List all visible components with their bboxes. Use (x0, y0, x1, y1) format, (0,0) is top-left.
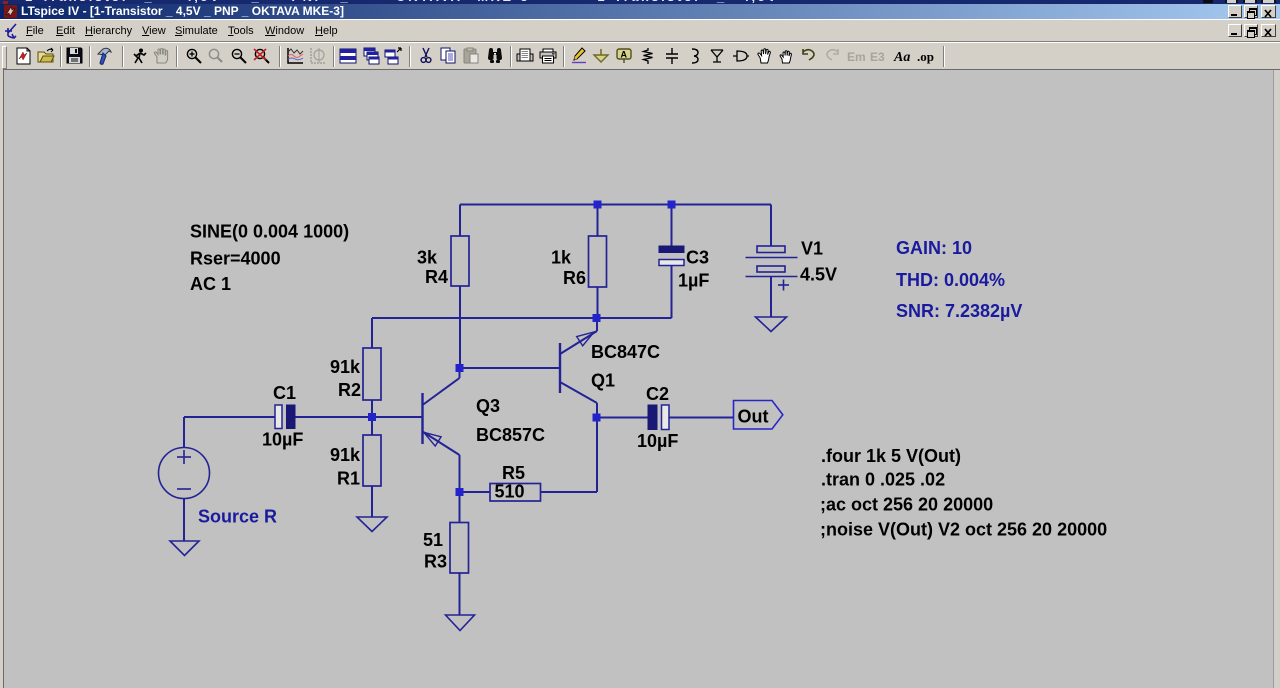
svg-text:BC857C: BC857C (476, 425, 545, 445)
MDI child icon (5, 23, 19, 39)
ground R1 (357, 517, 387, 532)
svg-text:SNR: 7.2382µV: SNR: 7.2382µV (896, 301, 1022, 321)
wire R3 bottom lead (459, 573, 461, 615)
wire R4 bottom lead to node base-Q1 (459, 286, 461, 368)
icon zoom box grayed (209, 49, 222, 62)
svg-text:91k: 91k (330, 357, 361, 377)
icon plot settings grayed (311, 48, 326, 63)
LTspice app icon (4, 5, 17, 18)
icon waveform (288, 48, 303, 63)
svg-text:R2: R2 (338, 380, 361, 400)
svg-text:.four 1k 5 V(Out): .four 1k 5 V(Out) (821, 446, 961, 466)
wire node down to R5 level (596, 418, 598, 493)
ground V1 (756, 317, 787, 332)
output flag Out (734, 401, 783, 430)
icon halt grayed (154, 49, 167, 64)
wire source bottom lead (183, 499, 185, 542)
wire R5 left lead (460, 491, 491, 493)
capacitor C1 (275, 405, 295, 429)
wire C3 top lead (671, 205, 673, 247)
svg-text:A: A (621, 50, 628, 60)
resistor R2 (363, 348, 381, 400)
icon find (488, 48, 502, 63)
icon zoom extents (254, 49, 269, 63)
transistor Q1 BC847C (560, 318, 597, 418)
icon move hand (758, 49, 770, 63)
svg-text:GAIN: 10: GAIN: 10 (896, 238, 972, 258)
icon open (38, 48, 54, 62)
wire Q3 base (372, 416, 423, 418)
icon redo grayed (827, 49, 838, 60)
resistor R6 (589, 236, 607, 287)
icon cascade windows (364, 48, 379, 64)
wire C2 to Out (669, 417, 734, 419)
icon cut (421, 48, 431, 62)
icon undo (803, 49, 814, 60)
wire R3 top lead (459, 492, 461, 523)
wire source to C1 (184, 416, 275, 418)
wire source top lead (183, 417, 185, 448)
icon tile windows (340, 49, 356, 63)
svg-text:BC847C: BC847C (591, 342, 660, 362)
svg-text:Q1: Q1 (591, 371, 615, 391)
top sliver: bottom of underlying window title (0, 0, 1280, 4)
svg-text:SINE(0 0.004 1000): SINE(0 0.004 1000) (190, 222, 349, 242)
svg-text:Aa: Aa (893, 50, 910, 65)
svg-text:.tran 0 .025 .02: .tran 0 .025 .02 (821, 470, 945, 490)
svg-text:10µF: 10µF (637, 431, 678, 451)
icon text Aa (893, 50, 910, 65)
icon edit attrs2 grayed (870, 50, 885, 64)
svg-text:C2: C2 (646, 384, 669, 404)
node junction rail-C3 (668, 201, 676, 209)
gripper (2, 46, 7, 69)
battery V1 (746, 246, 798, 291)
svg-text:Q3: Q3 (476, 396, 500, 416)
wire Q1 base (460, 367, 560, 369)
svg-text:Out: Out (738, 407, 769, 427)
resistor R4 (451, 236, 469, 286)
icon place label (617, 49, 631, 63)
svg-text:Em: Em (847, 50, 866, 64)
node junction Q1collector-C2 (593, 414, 601, 422)
svg-text:51: 51 (423, 530, 443, 550)
svg-text:R4: R4 (425, 267, 448, 287)
svg-text:4.5V: 4.5V (800, 265, 837, 285)
resistor R1 (363, 435, 381, 486)
wire battery top lead (770, 205, 772, 247)
svg-text:10µF: 10µF (262, 430, 303, 450)
wire node to C2 (597, 417, 648, 419)
capacitor C2 (648, 405, 669, 430)
menu bar (0, 19, 1280, 42)
svg-text:AC 1: AC 1 (190, 274, 231, 294)
svg-text:R3: R3 (424, 552, 447, 572)
resistor R3 (450, 523, 469, 574)
wire R1 bottom lead (371, 486, 373, 517)
svg-text:E3: E3 (870, 50, 885, 64)
ground R3 (446, 615, 475, 631)
MDI window buttons (1228, 24, 1242, 37)
wire C3 bottom lead (671, 266, 673, 319)
svg-text:3k: 3k (417, 248, 438, 268)
wire C1 to node (295, 416, 372, 418)
icon edit attrs grayed (847, 50, 866, 64)
icon copy (441, 48, 455, 63)
node junction Q3emitter-R5-R3 (456, 488, 464, 496)
node junction R4-Q1base (456, 364, 464, 372)
window buttons (1228, 5, 1242, 18)
wire R4 top lead (459, 205, 461, 237)
svg-text:;noise V(Out) V2 oct 256 20 20: ;noise V(Out) V2 oct 256 20 20000 (820, 520, 1107, 540)
svg-text:V1: V1 (801, 239, 823, 259)
svg-text:Source R: Source R (198, 507, 277, 527)
svg-text:C3: C3 (686, 248, 709, 268)
icon print preview (517, 49, 533, 61)
svg-text:R6: R6 (563, 268, 586, 288)
icon place ground (594, 49, 608, 62)
node junction rail-R6 (594, 201, 602, 209)
svg-text:.op: .op (917, 49, 934, 64)
svg-text:510: 510 (495, 482, 525, 502)
icon zoom out (232, 49, 246, 63)
icon place resistor (644, 48, 653, 64)
wire top rail (460, 204, 771, 206)
icon new schematic (17, 48, 30, 64)
voltage source V2 (Source) (159, 448, 210, 499)
transistor Q3 BC857C (423, 368, 460, 492)
svg-text:1k: 1k (551, 248, 572, 268)
icon control panel hammer (98, 48, 111, 64)
toolbar (0, 41, 1280, 71)
icon place component (733, 51, 749, 61)
svg-text:THD: 0.004%: THD: 0.004% (896, 270, 1005, 290)
icon tile vertically (385, 48, 401, 64)
node junction R1-R2-C1 (368, 413, 376, 421)
icon paste grayed (464, 48, 478, 63)
node junction feedback-Q1emitter (593, 314, 601, 322)
icon zoom in (187, 49, 201, 63)
wire battery bottom lead (770, 276, 772, 317)
icon place inductor (692, 49, 698, 63)
capacitor C3 (659, 246, 684, 266)
wire horizontal feedback rail (372, 317, 672, 319)
wire R5 right lead (541, 491, 598, 493)
wire R2 to R1 link (371, 400, 373, 435)
svg-text:C1: C1 (273, 383, 296, 403)
title bar (0, 4, 1280, 19)
icon drag hand (780, 51, 791, 63)
resistor R5 (490, 484, 541, 502)
wire R2 top lead (371, 318, 373, 348)
ground source (170, 541, 199, 556)
svg-text:1µF: 1µF (678, 271, 709, 291)
icon spice directive (917, 49, 934, 64)
icon draw wire pencil (572, 48, 586, 63)
icon place diode (711, 50, 723, 62)
svg-text:Rser=4000: Rser=4000 (190, 249, 281, 269)
svg-text:;ac oct 256 20 20000: ;ac oct 256 20 20000 (820, 495, 993, 515)
wire R6 bottom lead (597, 287, 599, 318)
wire R6 top lead (597, 205, 599, 237)
icon run (134, 49, 146, 64)
icon place capacitor (666, 48, 678, 64)
svg-text:R5: R5 (502, 463, 525, 483)
svg-text:91k: 91k (330, 445, 361, 465)
icon save (67, 48, 82, 63)
svg-text:R1: R1 (337, 469, 360, 489)
icon print (540, 49, 556, 63)
